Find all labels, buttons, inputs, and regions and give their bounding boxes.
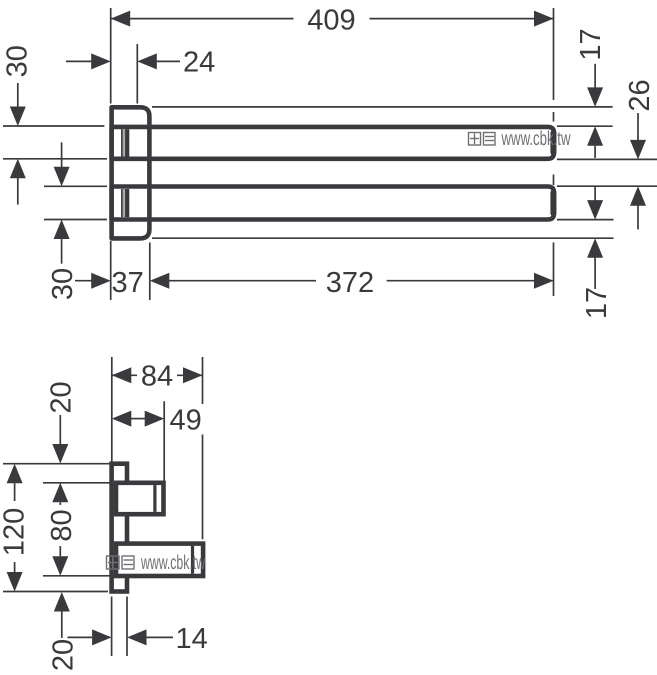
extension line 409/372 right — [553, 8, 555, 100]
arrow 17 bottom lower — [587, 238, 603, 258]
arrow 24 left — [91, 53, 111, 69]
bar2 end cap thick edge — [550, 193, 556, 213]
svg-text:www.cbk.tw: www.cbk.tw — [501, 128, 571, 150]
arm inner lines — [155, 485, 193, 574]
arrow 20 top lower / 80 top — [52, 483, 68, 503]
arrow 49 left — [112, 411, 132, 427]
extension line bar1 top right L2R — [557, 125, 613, 127]
arrow 17 bottom upper — [587, 200, 603, 220]
svg-text:17: 17 — [581, 287, 613, 319]
dim 17 top tail — [594, 64, 596, 89]
wall plate — [112, 464, 127, 592]
extension line 37 right — [149, 242, 151, 300]
dim 17 bottom tail — [594, 187, 596, 201]
svg-text:17: 17 — [575, 28, 607, 60]
dim 80 line — [59, 502, 61, 505]
towel bar 2 — [112, 187, 554, 220]
arrow 24 right — [137, 53, 157, 69]
dim 20 bottom tail — [61, 612, 63, 639]
svg-text:30: 30 — [47, 268, 79, 300]
extension line arm1 top — [43, 482, 110, 484]
extension line bar1 bottom right L3R — [557, 158, 657, 160]
svg-text:14: 14 — [176, 623, 208, 655]
arrow 84 right — [183, 367, 203, 383]
extension line head top L1 — [152, 106, 613, 108]
svg-text:372: 372 — [326, 267, 374, 299]
svg-text:84: 84 — [141, 361, 173, 393]
arrow 30 top lower — [10, 159, 26, 179]
svg-text:www.cbk.tw: www.cbk.tw — [140, 552, 205, 574]
svg-text:20: 20 — [46, 381, 78, 413]
pivot slot bar2 — [122, 189, 127, 217]
extension line 24 right — [136, 44, 138, 104]
extension line 14 left — [111, 597, 113, 657]
extension line 37 left — [110, 241, 112, 300]
extension line 84 left / plate left — [111, 357, 113, 462]
arrow 49 right — [145, 411, 165, 427]
arrow 20 bottom lower — [54, 592, 70, 612]
dim 26 tail — [637, 113, 639, 141]
extension line bar2 bottom right L5R — [557, 219, 614, 221]
PRODUCT side view — [112, 464, 204, 592]
arrow 14 right — [127, 629, 147, 645]
extension line 14 right — [126, 597, 128, 657]
dimension line 49 — [131, 418, 145, 420]
svg-text:409: 409 — [307, 4, 355, 36]
arrow 120 top — [7, 464, 23, 484]
svg-text:49: 49 — [170, 405, 202, 437]
svg-text:26: 26 — [624, 79, 656, 111]
dim 30 top tail — [17, 83, 19, 107]
arrow 80 bottom / 20 bottom upper — [52, 556, 68, 576]
extension line 409 left — [110, 8, 112, 104]
extension line bar2 bottom left L5L — [44, 219, 107, 221]
arrow 30 bottom upper — [54, 167, 70, 187]
arrow 37 left — [91, 273, 111, 289]
extension line bar2 top left L4L — [44, 185, 107, 187]
svg-text:80: 80 — [46, 509, 78, 541]
arrow 409 right — [534, 11, 554, 27]
extension line 84 right — [202, 357, 204, 404]
arrow 14 left — [92, 629, 112, 645]
dim 20 top tail — [59, 415, 61, 445]
PRODUCT top view — [112, 107, 554, 238]
arm 2 — [116, 544, 203, 576]
extension line plate top — [3, 463, 110, 465]
bar1 end cap thick edge — [550, 133, 556, 153]
extension line head2 bottom L6 — [152, 237, 614, 239]
towel bar 1 — [112, 127, 554, 159]
dimension line 372 — [169, 280, 316, 282]
dimension line 14 — [68, 636, 93, 638]
arrow 20 top upper — [52, 444, 68, 464]
extension line plate bottom — [3, 591, 108, 593]
svg-text:120: 120 — [0, 508, 30, 556]
arrow 372 left / 37 right — [150, 273, 170, 289]
dim 30 bottom tail — [61, 142, 63, 167]
svg-text:30: 30 — [1, 45, 33, 77]
arrow 120 bottom — [7, 572, 23, 592]
watermark side view — [107, 552, 206, 574]
arrow 17 top lower — [587, 126, 603, 146]
arrow 30 bottom lower — [54, 220, 70, 240]
dimension line 409 — [111, 18, 294, 20]
arrow 409 left — [111, 11, 131, 27]
svg-text:20: 20 — [47, 639, 79, 671]
pivot slot bar1 — [122, 129, 127, 156]
arrow 26 lower — [630, 186, 646, 206]
svg-text:37: 37 — [111, 267, 143, 299]
dimension line 84 — [112, 374, 137, 376]
arrow 26 upper — [630, 140, 646, 160]
extension line 49 right — [163, 401, 165, 480]
arrow 17 top upper — [587, 87, 603, 107]
arrow 84 left — [112, 367, 132, 383]
arm 1 — [116, 483, 164, 514]
svg-text:24: 24 — [183, 47, 215, 79]
dimension line 24 — [66, 60, 92, 62]
extension line bar1 top left L2L — [3, 125, 104, 127]
arrow 30 top upper — [10, 107, 26, 127]
dimension line 37 leader left — [75, 280, 92, 282]
extension line bar2 top right L4R — [557, 185, 657, 187]
extension line bar1 bottom left L3L — [3, 158, 107, 160]
dim 120 line — [14, 483, 16, 501]
arrow 372 right — [534, 273, 554, 289]
extension line arm2 bottom — [43, 575, 110, 577]
watermark top view — [469, 128, 571, 150]
holder plate outline — [112, 107, 150, 238]
